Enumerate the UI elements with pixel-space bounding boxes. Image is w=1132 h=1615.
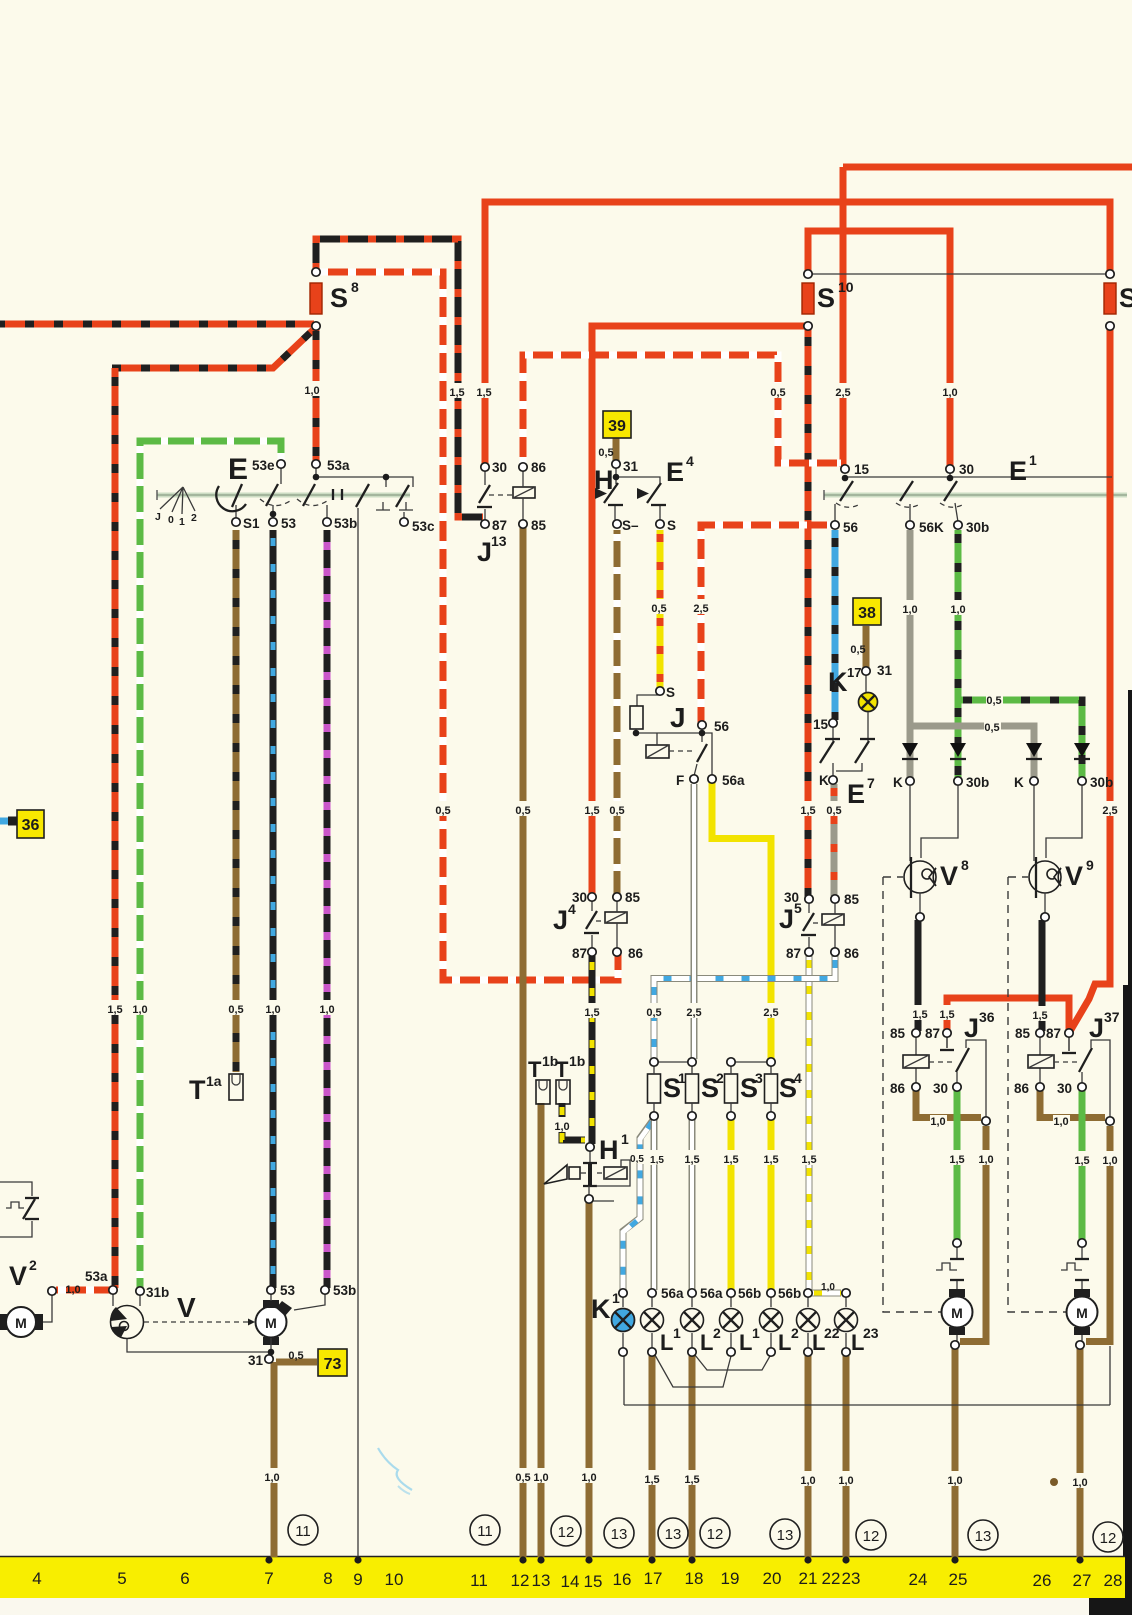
svg-text:17: 17 <box>644 1569 663 1588</box>
svg-text:1,5: 1,5 <box>684 1154 699 1166</box>
svg-text:8: 8 <box>961 857 969 873</box>
svg-text:4: 4 <box>686 453 694 469</box>
svg-text:22: 22 <box>824 1325 840 1341</box>
svg-text:53b: 53b <box>334 516 357 531</box>
svg-text:1,5: 1,5 <box>949 1154 964 1166</box>
svg-text:1,5: 1,5 <box>449 387 464 399</box>
svg-text:23: 23 <box>863 1325 879 1341</box>
svg-text:J: J <box>155 511 161 523</box>
svg-text:1: 1 <box>179 516 185 528</box>
svg-text:T: T <box>555 1057 569 1082</box>
svg-text:86: 86 <box>531 460 547 475</box>
svg-text:1,5: 1,5 <box>584 805 599 817</box>
svg-text:22: 22 <box>822 1569 841 1588</box>
svg-text:13: 13 <box>975 1528 992 1545</box>
svg-text:87: 87 <box>572 946 587 961</box>
svg-text:1,5: 1,5 <box>107 1004 122 1016</box>
svg-text:10: 10 <box>385 1570 404 1589</box>
svg-text:19: 19 <box>721 1569 740 1588</box>
svg-text:4: 4 <box>32 1569 41 1588</box>
svg-text:L: L <box>778 1330 791 1355</box>
svg-text:L: L <box>700 1330 713 1355</box>
svg-text:53b: 53b <box>333 1283 356 1298</box>
svg-text:36: 36 <box>22 817 40 834</box>
svg-text:K: K <box>819 773 829 788</box>
svg-text:1,0: 1,0 <box>554 1121 569 1133</box>
svg-text:1,0: 1,0 <box>1053 1116 1068 1128</box>
svg-text:53: 53 <box>280 1283 296 1298</box>
svg-text:13: 13 <box>491 533 507 549</box>
svg-text:2,5: 2,5 <box>686 1007 701 1019</box>
svg-text:T: T <box>528 1057 542 1082</box>
svg-text:26: 26 <box>1033 1571 1052 1590</box>
svg-text:S: S <box>667 518 676 533</box>
svg-text:36: 36 <box>979 1009 995 1025</box>
svg-text:30: 30 <box>1057 1081 1072 1096</box>
svg-text:86: 86 <box>1014 1081 1030 1096</box>
svg-text:2,5: 2,5 <box>693 603 708 615</box>
svg-text:0,5: 0,5 <box>986 695 1001 707</box>
svg-text:30b: 30b <box>966 520 989 535</box>
svg-text:21: 21 <box>799 1569 818 1588</box>
svg-text:24: 24 <box>909 1570 928 1589</box>
svg-text:V: V <box>9 1261 27 1291</box>
svg-text:56b: 56b <box>738 1286 761 1301</box>
svg-text:27: 27 <box>1073 1571 1092 1590</box>
svg-text:56b: 56b <box>778 1286 801 1301</box>
svg-text:1,0: 1,0 <box>930 1116 945 1128</box>
svg-text:V: V <box>177 1292 196 1323</box>
svg-text:1: 1 <box>621 1131 629 1147</box>
svg-text:J: J <box>779 904 794 934</box>
svg-text:1: 1 <box>612 1290 620 1306</box>
svg-text:8: 8 <box>323 1569 332 1588</box>
svg-text:E: E <box>666 457 684 487</box>
svg-text:0,5: 0,5 <box>435 805 450 817</box>
svg-text:2,5: 2,5 <box>763 1007 778 1019</box>
svg-text:87: 87 <box>786 946 801 961</box>
svg-text:8: 8 <box>351 279 359 295</box>
svg-text:1,0: 1,0 <box>821 1282 835 1293</box>
svg-text:M: M <box>15 1315 27 1331</box>
svg-text:1,0: 1,0 <box>978 1154 993 1166</box>
svg-text:87: 87 <box>925 1026 940 1041</box>
svg-text:12: 12 <box>1100 1530 1117 1547</box>
svg-text:2,5: 2,5 <box>835 387 850 399</box>
svg-text:85: 85 <box>625 890 641 905</box>
svg-text:53a: 53a <box>327 458 350 473</box>
svg-text:2: 2 <box>716 1070 724 1086</box>
svg-text:30: 30 <box>784 890 799 905</box>
svg-text:J: J <box>1089 1013 1104 1043</box>
svg-text:1,0: 1,0 <box>304 385 319 397</box>
svg-text:0,5: 0,5 <box>288 1350 303 1362</box>
svg-text:1,0: 1,0 <box>319 1004 334 1016</box>
svg-text:1,0: 1,0 <box>264 1472 279 1484</box>
svg-text:85: 85 <box>1015 1026 1031 1041</box>
svg-text:0,5: 0,5 <box>984 722 999 734</box>
svg-text:1,5: 1,5 <box>644 1474 659 1486</box>
svg-text:30b: 30b <box>1090 775 1113 790</box>
svg-text:S: S <box>666 685 675 700</box>
svg-text:0,5: 0,5 <box>228 1004 243 1016</box>
svg-text:31: 31 <box>248 1353 264 1368</box>
svg-text:0,5: 0,5 <box>651 603 666 615</box>
svg-text:0,5: 0,5 <box>850 644 865 656</box>
svg-text:18: 18 <box>685 1569 704 1588</box>
svg-text:V: V <box>940 861 958 891</box>
svg-text:13: 13 <box>611 1526 628 1543</box>
svg-text:85: 85 <box>890 1026 906 1041</box>
svg-text:86: 86 <box>844 946 860 961</box>
svg-text:J: J <box>964 1013 979 1043</box>
svg-text:1,5: 1,5 <box>1074 1155 1089 1167</box>
svg-text:37: 37 <box>1104 1009 1120 1025</box>
svg-text:12: 12 <box>558 1524 575 1541</box>
svg-text:56: 56 <box>843 520 859 535</box>
svg-text:13: 13 <box>665 1526 682 1543</box>
svg-text:1,0: 1,0 <box>533 1472 548 1484</box>
svg-text:9: 9 <box>1086 857 1094 873</box>
svg-text:3: 3 <box>755 1070 763 1086</box>
svg-text:K: K <box>828 667 848 697</box>
svg-text:13: 13 <box>777 1527 794 1544</box>
svg-text:31: 31 <box>877 663 893 678</box>
svg-text:S: S <box>330 283 348 313</box>
svg-text:31: 31 <box>623 459 639 474</box>
svg-text:1,0: 1,0 <box>902 604 917 616</box>
svg-text:25: 25 <box>949 1570 968 1589</box>
svg-text:1,5: 1,5 <box>800 805 815 817</box>
svg-text:1,0: 1,0 <box>1102 1155 1117 1167</box>
svg-text:31b: 31b <box>146 1285 169 1300</box>
svg-text:15: 15 <box>584 1572 603 1591</box>
svg-text:1,0: 1,0 <box>942 387 957 399</box>
svg-text:0,5: 0,5 <box>646 1007 661 1019</box>
svg-text:56a: 56a <box>700 1286 723 1301</box>
svg-text:H: H <box>599 1135 619 1165</box>
svg-text:J: J <box>477 537 492 567</box>
svg-text:86: 86 <box>628 946 644 961</box>
svg-text:20: 20 <box>763 1569 782 1588</box>
svg-text:2: 2 <box>713 1325 721 1341</box>
svg-text:1,0: 1,0 <box>800 1475 815 1487</box>
svg-text:M: M <box>951 1305 963 1321</box>
svg-text:1,0: 1,0 <box>950 604 965 616</box>
svg-text:T: T <box>189 1075 206 1105</box>
svg-text:H: H <box>594 465 614 495</box>
svg-text:J: J <box>670 702 686 733</box>
svg-text:2: 2 <box>191 512 197 524</box>
svg-text:1: 1 <box>752 1325 760 1341</box>
svg-text:L: L <box>739 1330 752 1355</box>
svg-text:K: K <box>893 775 903 790</box>
svg-text:53a: 53a <box>85 1269 108 1284</box>
svg-text:16: 16 <box>613 1570 632 1589</box>
svg-text:1,5: 1,5 <box>939 1009 954 1021</box>
svg-text:1,0: 1,0 <box>265 1004 280 1016</box>
svg-text:K: K <box>1014 775 1024 790</box>
svg-text:11: 11 <box>477 1523 493 1540</box>
svg-text:12: 12 <box>707 1526 724 1543</box>
svg-text:30b: 30b <box>966 775 989 790</box>
svg-text:E: E <box>1009 456 1027 486</box>
svg-text:15: 15 <box>854 462 870 477</box>
svg-text:85: 85 <box>844 892 860 907</box>
svg-text:38: 38 <box>858 605 876 622</box>
svg-text:7: 7 <box>264 1569 273 1588</box>
svg-text:73: 73 <box>324 1356 342 1373</box>
svg-text:13: 13 <box>532 1571 551 1590</box>
svg-text:10: 10 <box>838 279 854 295</box>
svg-text:1,5: 1,5 <box>763 1154 778 1166</box>
svg-text:15: 15 <box>813 717 829 732</box>
svg-text:M: M <box>1076 1305 1088 1321</box>
svg-text:30: 30 <box>492 460 507 475</box>
svg-text:1,0: 1,0 <box>1072 1477 1087 1489</box>
svg-text:87: 87 <box>1046 1026 1061 1041</box>
svg-text:S–: S– <box>622 518 639 533</box>
svg-text:M: M <box>265 1315 277 1331</box>
svg-text:1,0: 1,0 <box>581 1472 596 1484</box>
svg-text:1,5: 1,5 <box>723 1154 738 1166</box>
svg-text:0,5: 0,5 <box>598 447 613 459</box>
svg-text:1,5: 1,5 <box>476 387 491 399</box>
svg-text:1,0: 1,0 <box>132 1004 147 1016</box>
svg-text:11: 11 <box>295 1523 311 1540</box>
svg-text:56a: 56a <box>722 773 745 788</box>
svg-text:86: 86 <box>890 1081 906 1096</box>
svg-text:39: 39 <box>608 418 626 435</box>
svg-text:12: 12 <box>511 1571 530 1590</box>
svg-text:0,5: 0,5 <box>826 805 841 817</box>
svg-text:1: 1 <box>1029 452 1037 468</box>
svg-text:7: 7 <box>867 775 875 791</box>
svg-text:0: 0 <box>168 514 174 526</box>
svg-text:87: 87 <box>492 518 507 533</box>
svg-text:2: 2 <box>29 1257 37 1273</box>
svg-text:1b: 1b <box>569 1053 585 1069</box>
svg-text:0,5: 0,5 <box>609 805 624 817</box>
svg-text:S: S <box>817 283 835 313</box>
svg-text:30: 30 <box>959 462 974 477</box>
svg-text:1,5: 1,5 <box>684 1474 699 1486</box>
svg-text:11: 11 <box>470 1571 488 1590</box>
svg-text:1,5: 1,5 <box>801 1154 816 1166</box>
svg-text:56K: 56K <box>919 520 944 535</box>
svg-text:1: 1 <box>673 1325 681 1341</box>
svg-text:6: 6 <box>180 1569 189 1588</box>
svg-text:E: E <box>228 453 248 486</box>
svg-text:1,5: 1,5 <box>650 1155 664 1166</box>
svg-text:L: L <box>660 1330 673 1355</box>
svg-text:1,5: 1,5 <box>1032 1010 1047 1022</box>
svg-text:1,5: 1,5 <box>584 1007 599 1019</box>
svg-text:1,0: 1,0 <box>65 1284 80 1296</box>
svg-text:56: 56 <box>714 719 730 734</box>
svg-text:K: K <box>591 1294 611 1324</box>
svg-text:14: 14 <box>561 1572 580 1591</box>
svg-text:30: 30 <box>572 890 587 905</box>
svg-text:1: 1 <box>678 1070 686 1086</box>
svg-text:85: 85 <box>531 518 547 533</box>
svg-text:9: 9 <box>353 1570 362 1589</box>
svg-text:53: 53 <box>281 516 297 531</box>
svg-text:2: 2 <box>791 1325 799 1341</box>
svg-text:F: F <box>676 773 684 788</box>
svg-text:17: 17 <box>847 665 861 680</box>
svg-text:0,5: 0,5 <box>770 387 785 399</box>
svg-text:1,0: 1,0 <box>838 1475 853 1487</box>
svg-text:4: 4 <box>794 1070 802 1086</box>
svg-text:56a: 56a <box>661 1286 684 1301</box>
svg-text:J: J <box>553 905 568 935</box>
svg-text:0,5: 0,5 <box>515 1472 530 1484</box>
svg-text:1a: 1a <box>206 1073 222 1089</box>
svg-text:S1: S1 <box>243 516 260 531</box>
svg-text:E: E <box>847 779 865 809</box>
svg-text:53e: 53e <box>252 458 275 473</box>
svg-text:0,5: 0,5 <box>630 1154 644 1165</box>
svg-text:V: V <box>1065 861 1083 891</box>
svg-text:S: S <box>1119 283 1132 313</box>
svg-text:28: 28 <box>1104 1571 1123 1590</box>
svg-text:1,0: 1,0 <box>947 1475 962 1487</box>
svg-text:53c: 53c <box>412 519 435 534</box>
svg-text:1,5: 1,5 <box>912 1009 927 1021</box>
svg-text:23: 23 <box>842 1569 861 1588</box>
svg-text:0,5: 0,5 <box>515 805 530 817</box>
svg-text:5: 5 <box>117 1569 126 1588</box>
svg-text:12: 12 <box>863 1528 880 1545</box>
svg-text:2,5: 2,5 <box>1102 805 1117 817</box>
svg-text:30: 30 <box>933 1081 948 1096</box>
